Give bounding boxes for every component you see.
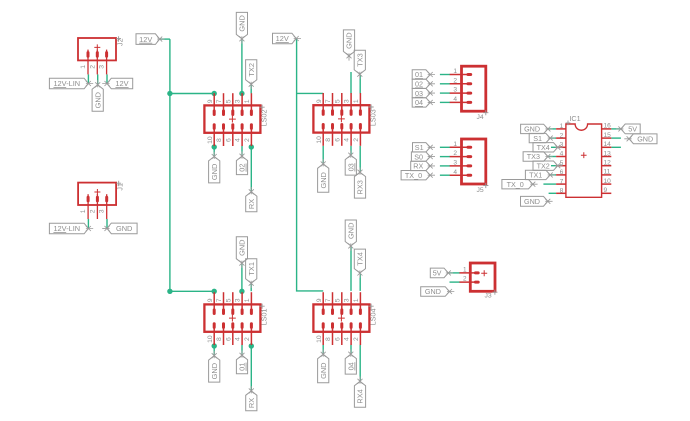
wire TX4 to LS04 pin 1 [359, 273, 361, 291]
svg-text:3: 3 [453, 160, 457, 167]
connector J2 [78, 36, 125, 74]
svg-text:13: 13 [604, 150, 612, 157]
svg-text:GND: GND [347, 223, 356, 239]
wire stub J5 pin 1 [440, 146, 450, 148]
svg-text:4: 4 [453, 169, 457, 176]
net label RX3 [354, 167, 365, 198]
svg-text:3: 3 [99, 209, 106, 213]
svg-text:6: 6 [225, 337, 232, 341]
header LS01 [204, 292, 268, 345]
net label GND above LS04 [345, 220, 356, 251]
svg-text:5V: 5V [628, 125, 637, 134]
svg-text:TX_0: TX_0 [507, 180, 524, 189]
net label GND below LS03 pin 10 [318, 159, 329, 192]
junction LS01 pin 9 [212, 289, 217, 294]
svg-text:5: 5 [225, 298, 232, 302]
svg-text:2: 2 [89, 209, 96, 213]
net label 5V at IC1 pin 16 [616, 124, 640, 134]
wire J1 pin 3 to GND [106, 219, 108, 228]
wire GND to LS01 pin 3 [241, 264, 243, 292]
svg-text:1: 1 [80, 209, 87, 213]
svg-text:2: 2 [353, 337, 360, 341]
connector J1 [78, 181, 125, 219]
svg-text:12V-LIN: 12V-LIN [53, 224, 80, 233]
net label GND at J1 pin 3 [102, 223, 137, 234]
svg-text:7: 7 [325, 298, 332, 302]
svg-text:GND: GND [524, 125, 540, 134]
net label GND at IC1 pin 15 [624, 134, 657, 144]
net label 12V-LIN at J2 [49, 78, 93, 89]
svg-text:GND: GND [637, 135, 653, 144]
svg-text:4: 4 [560, 151, 564, 158]
svg-text:7: 7 [216, 99, 223, 103]
svg-text:RX4: RX4 [356, 389, 365, 403]
svg-text:2: 2 [353, 138, 360, 142]
net label 5V at J3 pin 1 [430, 268, 453, 278]
svg-text:RX: RX [413, 162, 423, 171]
svg-text:GND: GND [345, 32, 354, 48]
wire stub IC1 pin 15 [611, 137, 621, 139]
svg-text:3: 3 [235, 99, 242, 103]
op IC1 [556, 114, 611, 198]
net label S1 at IC1 pin 2 [529, 133, 555, 142]
wire GND to LS02 pin 3 [241, 40, 243, 94]
junction LS01 pin 2 [249, 343, 254, 348]
svg-text:GND: GND [238, 239, 247, 255]
net label 03 [345, 150, 356, 175]
wire LS01 pin 2 to RX [250, 345, 252, 391]
wire 12V rail 2 vertical [296, 39, 323, 291]
wire stub LS03 pin 3 [350, 72, 352, 93]
wire S1 to IC1 pin 2 [550, 137, 556, 139]
svg-text:TX4: TX4 [356, 252, 365, 266]
svg-text:LS02: LS02 [259, 110, 268, 127]
svg-text:5: 5 [334, 99, 341, 103]
svg-text:RX3: RX3 [356, 180, 365, 194]
net label S0 at J5 pin 2 [411, 152, 435, 161]
wire TX4 to IC1 pin 3 [551, 146, 556, 148]
svg-text:11: 11 [604, 169, 611, 176]
junction 12V rail lower [167, 289, 172, 294]
svg-text:2: 2 [244, 337, 251, 341]
svg-text:8: 8 [325, 337, 332, 341]
junction LS01 pin 10 [212, 343, 217, 348]
svg-text:S0: S0 [414, 152, 423, 161]
svg-text:2: 2 [560, 132, 564, 139]
svg-text:TX2: TX2 [537, 161, 550, 170]
wire J1 pin 1 to 12V-LIN [87, 219, 89, 228]
net label TX4 [354, 249, 365, 278]
svg-text:J2: J2 [116, 38, 125, 46]
svg-text:GND: GND [524, 197, 540, 206]
net label RX below LS02 [246, 187, 257, 212]
wire GND to LS04 pin 3 [350, 246, 352, 291]
wire J2 pin 2 to GND [97, 74, 99, 85]
svg-text:6: 6 [334, 138, 341, 142]
svg-text:2: 2 [89, 65, 96, 69]
svg-text:5: 5 [334, 298, 341, 302]
net label 01 [236, 351, 247, 374]
wire 12V rail 2 branch to LS03 pin 9 [297, 92, 324, 94]
net label GND below J2 pin 2 [92, 80, 103, 111]
junction LS02 pin 2 [249, 144, 254, 149]
wire stub J5 pin 4 [440, 174, 450, 176]
svg-text:TX_0: TX_0 [405, 171, 422, 180]
junction LS01 pin 3 [239, 289, 244, 294]
svg-text:4: 4 [453, 96, 457, 103]
net label TX4 at IC1 pin 3 [533, 143, 563, 152]
wire stub J4 pin 1 [440, 74, 450, 76]
net label GND below LS01 pin 10 [209, 351, 220, 382]
svg-text:1: 1 [244, 298, 251, 302]
net label 01 at J4 pin 1 [412, 70, 435, 79]
svg-text:5V: 5V [433, 269, 442, 278]
svg-text:03: 03 [415, 89, 423, 98]
wire GND to IC1 pin 1 [548, 128, 556, 130]
net label GND above LS01 [236, 237, 247, 268]
wire LS03 pin 10 to GND [322, 146, 324, 164]
net label GND above LS03 [343, 30, 354, 61]
net label GND below LS02 pin 10 [209, 152, 220, 183]
svg-text:15: 15 [604, 132, 612, 139]
wire TX3 to IC1 pin 4 [548, 156, 556, 158]
net label TX_0 at IC1 [502, 180, 538, 189]
svg-text:10: 10 [604, 178, 612, 185]
net label RX below LS01 [246, 386, 257, 411]
wire stub IC1 pin 14 [611, 146, 621, 148]
wire TX2 to IC1 pin 5 [551, 165, 556, 167]
wire IC1 pin 16 to 5V [611, 128, 621, 130]
svg-text:2: 2 [453, 77, 457, 84]
net label 02 at J4 pin 2 [412, 79, 435, 88]
svg-text:04: 04 [415, 98, 423, 107]
net label TX2 [246, 60, 257, 89]
svg-text:J3: J3 [485, 292, 492, 299]
net label 12V (left rail) [136, 34, 165, 45]
svg-text:RX: RX [247, 199, 256, 209]
net label 12V at J2 pin 3 [102, 78, 133, 89]
net label TX3 at IC1 pin 4 [523, 152, 553, 161]
svg-text:12V: 12V [115, 79, 128, 88]
svg-text:04: 04 [347, 362, 356, 370]
connector J4 [450, 66, 489, 121]
svg-text:IC1: IC1 [569, 114, 580, 123]
svg-text:GND: GND [210, 363, 219, 379]
svg-text:8: 8 [216, 138, 223, 142]
wire stub J3 pin 2 [450, 281, 461, 283]
net label 03 at J4 pin 3 [412, 88, 435, 97]
svg-text:01: 01 [238, 363, 247, 371]
svg-text:TX3: TX3 [356, 53, 365, 67]
net label S1 at J5 pin 1 [413, 143, 436, 152]
svg-text:7: 7 [325, 99, 332, 103]
wire TX1 to IC1 pin 6 [550, 174, 556, 176]
svg-text:TX2: TX2 [247, 63, 256, 77]
net label 02 [236, 151, 247, 174]
svg-text:10: 10 [207, 335, 214, 343]
wire TX3 to LS03 pin 1 [359, 75, 361, 94]
svg-text:GND: GND [319, 172, 328, 188]
net label GND below LS04 pin 10 [318, 350, 329, 383]
svg-text:4: 4 [235, 337, 242, 341]
svg-text:1: 1 [453, 141, 457, 148]
wire LS04 pin 10 to GND [322, 345, 324, 354]
svg-text:2: 2 [463, 276, 467, 283]
svg-text:8: 8 [325, 138, 332, 142]
wire LS04 pin 2 to RX4 [359, 345, 361, 381]
wire stub J5 pin 2 [440, 156, 450, 158]
svg-text:6: 6 [560, 169, 564, 176]
svg-text:9: 9 [316, 99, 323, 103]
svg-text:J5: J5 [477, 187, 484, 194]
header LS02 [204, 93, 268, 146]
svg-text:6: 6 [225, 138, 232, 142]
net label GND below IC1 [521, 196, 553, 206]
net label TX1 [246, 259, 257, 288]
wire 12V rail from label to corner [160, 38, 170, 40]
net label TX_0 at J5 pin 4 [401, 171, 435, 180]
wire 12V branch to LS01 pin 9 [170, 290, 214, 292]
svg-text:9: 9 [207, 99, 214, 103]
svg-text:12V: 12V [276, 34, 289, 43]
wire stub IC1 pin 7 [543, 183, 556, 185]
svg-text:16: 16 [604, 123, 612, 130]
svg-text:10: 10 [316, 136, 323, 144]
net label GND at J3 [421, 287, 455, 297]
svg-text:RX: RX [247, 398, 256, 408]
junction 12V rail upper [167, 91, 172, 96]
wire J3 pin 1 to 5V [450, 272, 461, 274]
svg-text:TX1: TX1 [247, 262, 256, 276]
svg-text:3: 3 [235, 298, 242, 302]
net label GND above LS02 [236, 12, 247, 43]
svg-text:GND: GND [93, 92, 102, 108]
svg-text:3: 3 [453, 87, 457, 94]
wire LS02 pin 10 to GND [213, 146, 215, 157]
connector J5 [450, 139, 489, 194]
svg-text:TX4: TX4 [537, 143, 550, 152]
net label 04 at J4 pin 4 [412, 98, 435, 107]
net label RX4 [354, 377, 365, 408]
net label 12V (right rail) [273, 33, 302, 44]
svg-text:3: 3 [99, 65, 106, 69]
wire stub IC1 pin 8 [549, 192, 557, 194]
svg-text:1: 1 [244, 99, 251, 103]
svg-text:TX3: TX3 [527, 152, 540, 161]
svg-text:9: 9 [604, 187, 608, 194]
svg-text:02: 02 [238, 163, 247, 171]
net label 12V-LIN at J1 [49, 223, 93, 234]
net label GND at IC1 pin 1 [521, 124, 553, 133]
net label 04 [345, 349, 356, 374]
wire LS01 pin 4 to 01 [241, 345, 243, 355]
wire stub J4 pin 3 [440, 92, 450, 94]
svg-text:GND: GND [425, 287, 441, 296]
wire J2 pin 3 to 12V [106, 74, 108, 83]
svg-text:4: 4 [344, 337, 351, 341]
svg-text:S1: S1 [415, 143, 424, 152]
svg-text:3: 3 [344, 298, 351, 302]
junction LS02 pin 9 [212, 91, 217, 96]
svg-text:J1: J1 [116, 183, 125, 191]
wire J2 pin 1 to 12V-LIN [87, 74, 89, 83]
wire LS04 pin 4 to 04 [350, 345, 352, 354]
svg-text:1: 1 [80, 65, 87, 69]
svg-text:1: 1 [453, 68, 457, 75]
wire stub J4 pin 2 [440, 83, 450, 85]
svg-text:1: 1 [560, 123, 564, 130]
wire TX1 to LS01 pin 1 [250, 284, 252, 292]
svg-text:12: 12 [604, 160, 612, 167]
wire LS01 pin 10 to GND [213, 345, 215, 356]
svg-text:14: 14 [604, 141, 612, 148]
junction LS02 pin 3 [239, 91, 244, 96]
wire LS03 pin 2 to RX3 [359, 146, 361, 172]
svg-text:6: 6 [334, 337, 341, 341]
net label TX3 [354, 50, 365, 79]
svg-text:3: 3 [344, 99, 351, 103]
svg-text:10: 10 [207, 136, 214, 144]
header LS04 [313, 292, 377, 345]
svg-text:9: 9 [207, 298, 214, 302]
wire LS02 pin 4 to 02 [241, 146, 243, 156]
svg-text:02: 02 [415, 80, 423, 89]
svg-text:GND: GND [319, 362, 328, 378]
svg-text:9: 9 [316, 298, 323, 302]
svg-text:GND: GND [116, 224, 132, 233]
svg-text:1: 1 [353, 99, 360, 103]
svg-text:5: 5 [225, 99, 232, 103]
svg-text:LS01: LS01 [259, 309, 268, 326]
svg-text:4: 4 [235, 138, 242, 142]
svg-text:7: 7 [560, 178, 564, 185]
wire TX2 to LS02 pin 1 [250, 85, 252, 94]
svg-text:J4: J4 [477, 114, 484, 121]
svg-text:2: 2 [453, 150, 457, 157]
net label RX at J5 pin 3 [411, 161, 435, 170]
svg-text:GND: GND [210, 164, 219, 180]
svg-text:01: 01 [415, 70, 423, 79]
svg-text:TX1: TX1 [529, 171, 542, 180]
wire 12V branch to LS02 pin 9 [170, 93, 214, 95]
svg-text:12V: 12V [139, 35, 152, 44]
svg-text:7: 7 [216, 298, 223, 302]
svg-text:10: 10 [316, 335, 323, 343]
wire LS03 pin 4 to 03 [350, 146, 352, 155]
svg-text:LS04: LS04 [368, 309, 377, 326]
svg-text:S1: S1 [533, 134, 542, 143]
svg-text:1: 1 [353, 298, 360, 302]
svg-text:LS03: LS03 [368, 109, 377, 126]
svg-text:1: 1 [463, 266, 467, 273]
svg-text:03: 03 [347, 163, 356, 171]
junction LS02 pin 10 [212, 144, 217, 149]
svg-text:2: 2 [244, 138, 251, 142]
svg-text:4: 4 [344, 138, 351, 142]
wire stub J4 pin 4 [440, 101, 450, 103]
connector J3 [460, 263, 498, 299]
net label TX1 at IC1 pin 6 [525, 170, 555, 179]
svg-text:GND: GND [238, 15, 247, 31]
wire 12V vertical rail left [169, 39, 171, 291]
wire LS02 pin 2 to RX [250, 146, 252, 192]
svg-text:8: 8 [216, 337, 223, 341]
net label TX2 at IC1 pin 5 [533, 161, 563, 170]
svg-text:8: 8 [560, 188, 564, 195]
header LS03 [313, 93, 377, 146]
wire stub J5 pin 3 [440, 165, 450, 167]
svg-text:12V-LIN: 12V-LIN [53, 79, 80, 88]
